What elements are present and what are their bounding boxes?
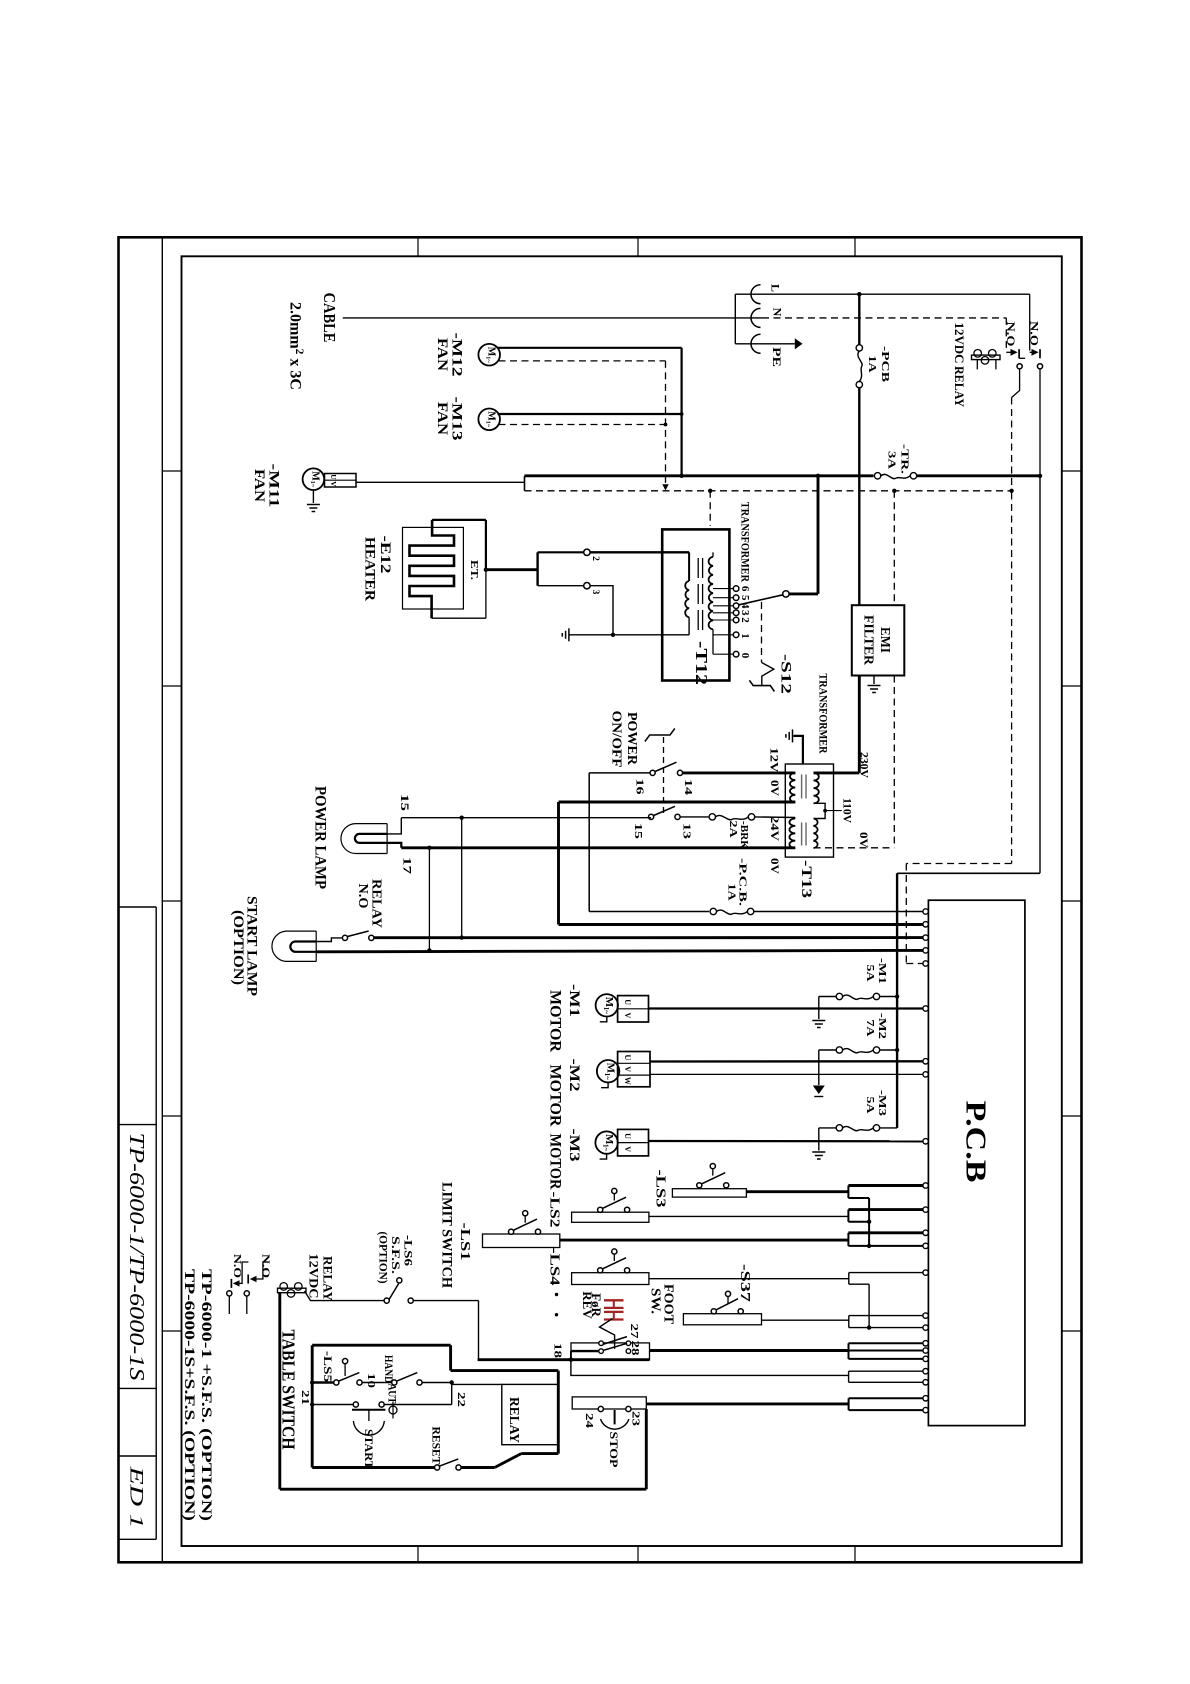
svg-text:TP-6000-1S+S.F.S. (OPTION): TP-6000-1S+S.F.S. (OPTION)	[181, 1269, 197, 1521]
svg-text:MOTOR: MOTOR	[547, 1134, 564, 1190]
svg-text:-M2: -M2	[566, 1059, 582, 1092]
svg-text:N.O: N.O	[260, 1254, 272, 1279]
svg-text:U: U	[623, 1133, 632, 1139]
svg-text:15: 15	[632, 823, 644, 840]
svg-text:1~: 1~	[485, 356, 492, 363]
svg-text:ET.: ET.	[468, 560, 479, 580]
svg-text:1~: 1~	[602, 1007, 610, 1015]
svg-text:LIMIT SWITCH: LIMIT SWITCH	[439, 1182, 455, 1289]
svg-text:1A: 1A	[725, 884, 737, 901]
svg-text:16: 16	[634, 779, 646, 796]
svg-text:STOP: STOP	[607, 1432, 621, 1468]
svg-text:5A: 5A	[864, 1097, 876, 1114]
svg-text:13: 13	[680, 823, 692, 840]
svg-text:-M1: -M1	[876, 958, 888, 984]
svg-text:27: 27	[628, 1324, 639, 1339]
svg-text:18: 18	[551, 1343, 562, 1358]
svg-text:0V: 0V	[857, 832, 869, 849]
svg-text:-T13: -T13	[798, 860, 814, 898]
svg-text:EMI: EMI	[878, 627, 893, 653]
svg-text:AUT: AUT	[386, 1384, 400, 1404]
svg-text:-M3: -M3	[566, 1129, 582, 1162]
svg-text:RELAY: RELAY	[952, 366, 966, 407]
svg-text:-TR.: -TR.	[899, 444, 911, 474]
svg-text:1~: 1~	[602, 1144, 610, 1152]
svg-text:28: 28	[629, 1341, 640, 1356]
svg-text:U: U	[623, 1055, 632, 1061]
svg-text:FAN: FAN	[434, 338, 450, 372]
svg-text:-M3: -M3	[876, 1090, 888, 1117]
svg-text:(OPTION): (OPTION)	[230, 910, 246, 985]
svg-text:MOTOR: MOTOR	[547, 1065, 564, 1127]
svg-text:-M1: -M1	[566, 984, 582, 1017]
svg-text:S.F.S.: S.F.S.	[389, 1236, 401, 1274]
svg-text:-T12: -T12	[692, 641, 711, 685]
svg-text:POWER LAMP: POWER LAMP	[311, 786, 328, 890]
svg-text:2: 2	[739, 617, 751, 623]
svg-text:U: U	[623, 999, 632, 1005]
svg-text:1~: 1~	[603, 1073, 611, 1081]
svg-text:15: 15	[398, 794, 412, 811]
svg-text:-LS5: -LS5	[321, 1351, 333, 1382]
svg-text:ED 1: ED 1	[126, 1465, 147, 1529]
svg-text:2A: 2A	[727, 821, 739, 838]
svg-text:V: V	[623, 1066, 632, 1072]
svg-text:24: 24	[583, 1413, 594, 1429]
svg-text:-LS4: -LS4	[546, 1248, 561, 1286]
svg-text:CABLE: CABLE	[320, 293, 339, 343]
svg-text:0: 0	[739, 653, 751, 659]
svg-text:TRANSFORMER: TRANSFORMER	[739, 502, 753, 582]
svg-text:3: 3	[739, 610, 751, 616]
svg-text:RELAY: RELAY	[507, 1397, 522, 1443]
svg-text:10: 10	[365, 1373, 376, 1388]
svg-text:SW.: SW.	[648, 1288, 663, 1314]
svg-text:0V: 0V	[768, 780, 780, 797]
svg-text:-LS2: -LS2	[546, 1192, 561, 1228]
svg-text:-S37: -S37	[737, 1264, 752, 1302]
svg-text:(OPTION): (OPTION)	[376, 1232, 388, 1284]
svg-text:U: U	[329, 474, 338, 480]
svg-text:21: 21	[299, 1390, 310, 1405]
svg-text:1~: 1~	[309, 481, 316, 488]
svg-text:P.C.B: P.C.B	[959, 1101, 990, 1183]
svg-text:V: V	[329, 481, 338, 487]
svg-text:TP-6000-1/TP-6000-1S: TP-6000-1/TP-6000-1S	[125, 1133, 149, 1382]
svg-text:110V: 110V	[840, 798, 852, 824]
svg-text:HEATER: HEATER	[362, 537, 378, 602]
svg-text:14: 14	[682, 779, 694, 796]
svg-text:V: V	[623, 1013, 632, 1019]
svg-text:N.O: N.O	[1004, 322, 1016, 347]
svg-text:1A: 1A	[866, 356, 878, 373]
svg-text:-LS6: -LS6	[402, 1235, 414, 1266]
svg-text:TP-6000-1 +S.F.S. (OPTION): TP-6000-1 +S.F.S. (OPTION)	[198, 1269, 214, 1521]
svg-text:REV: REV	[580, 1291, 595, 1319]
svg-text:N.O: N.O	[1028, 321, 1040, 346]
svg-text:1: 1	[739, 633, 751, 639]
svg-text:ON/OFF: ON/OFF	[610, 711, 625, 768]
svg-text:2.0mm2 x 3C: 2.0mm2 x 3C	[287, 302, 306, 390]
svg-text:TRANSFORMER: TRANSFORMER	[817, 674, 831, 754]
svg-text:-E12: -E12	[377, 536, 393, 574]
svg-text:24V: 24V	[768, 816, 780, 842]
svg-text:HAND: HAND	[382, 1355, 396, 1383]
svg-text:-LS3: -LS3	[652, 1170, 667, 1208]
svg-text:7A: 7A	[864, 1020, 876, 1037]
svg-text:1~: 1~	[485, 421, 492, 428]
svg-text:RELAY: RELAY	[321, 1256, 335, 1301]
svg-text:5A: 5A	[864, 965, 876, 982]
svg-text:5: 5	[739, 595, 751, 601]
svg-text:L: L	[769, 284, 783, 292]
svg-text:12VDC: 12VDC	[952, 323, 966, 364]
svg-text:-S12: -S12	[777, 654, 793, 694]
svg-text:W: W	[623, 1077, 632, 1085]
svg-text:3: 3	[590, 590, 600, 595]
svg-text:START: START	[362, 1429, 376, 1469]
svg-text:-M2: -M2	[876, 1013, 888, 1040]
svg-text:17: 17	[401, 857, 415, 874]
svg-text:-P.C.B.: -P.C.B.	[737, 858, 749, 906]
svg-text:FAN: FAN	[434, 402, 450, 436]
svg-text:23: 23	[630, 1411, 641, 1426]
svg-text:FILTER: FILTER	[862, 615, 877, 665]
svg-text:TABLE SWITCH: TABLE SWITCH	[279, 1330, 299, 1450]
svg-text:V: V	[623, 1146, 632, 1152]
svg-text:POWER: POWER	[625, 712, 640, 765]
svg-text:N.O: N.O	[231, 1254, 243, 1279]
svg-text:230V: 230V	[857, 752, 869, 779]
svg-text:-LS1: -LS1	[457, 1223, 472, 1261]
svg-text:N.O: N.O	[356, 884, 371, 909]
svg-text:MOTOR: MOTOR	[547, 990, 564, 1052]
svg-text:6: 6	[739, 586, 751, 592]
svg-text:12V: 12V	[767, 748, 779, 774]
svg-text:FAN: FAN	[251, 469, 267, 503]
svg-text:N: N	[771, 308, 785, 317]
svg-text:12VDC: 12VDC	[307, 1254, 321, 1299]
svg-text:0V: 0V	[768, 858, 780, 875]
svg-text:3A: 3A	[886, 451, 898, 469]
svg-text:PE: PE	[770, 347, 784, 367]
svg-text:-PCB: -PCB	[879, 346, 891, 383]
svg-text:2: 2	[590, 556, 600, 561]
svg-text:RESET: RESET	[429, 1427, 443, 1465]
svg-text:22: 22	[455, 1392, 466, 1407]
